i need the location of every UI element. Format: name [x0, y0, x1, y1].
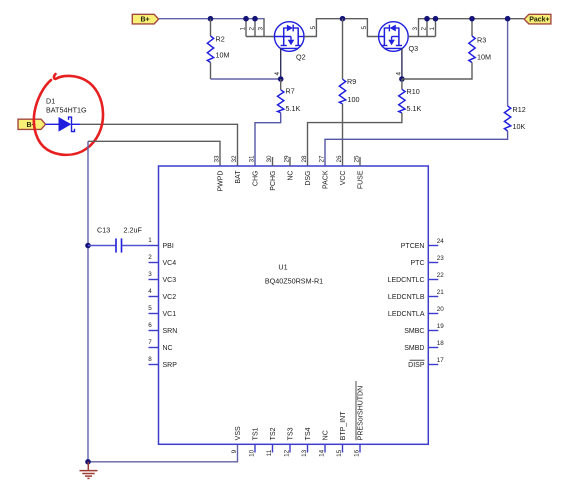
- svg-text:3: 3: [258, 27, 265, 31]
- svg-text:SRP: SRP: [163, 362, 178, 369]
- svg-text:26: 26: [336, 155, 343, 163]
- svg-text:VSS: VSS: [235, 426, 242, 440]
- diode D1 BAT54HT1G: [46, 97, 88, 132]
- ground: [80, 462, 98, 479]
- wire Q3 gate lead: [401, 48, 403, 79]
- svg-text:PCHG: PCHG: [270, 171, 277, 191]
- wire PWPD net (pin33 to left vertical): [88, 141, 220, 166]
- transistor Q3 (N-MOSFET mirrored): [379, 22, 418, 53]
- svg-text:R7: R7: [286, 87, 295, 96]
- svg-text:Pack+: Pack+: [529, 17, 549, 24]
- svg-text:100: 100: [348, 95, 360, 104]
- svg-text:FUSE: FUSE: [358, 170, 365, 189]
- svg-text:33: 33: [214, 155, 221, 163]
- svg-text:PTCEN: PTCEN: [401, 243, 425, 250]
- wire left vertical bus: [87, 141, 89, 462]
- svg-text:10M: 10M: [216, 51, 230, 60]
- svg-text:D1: D1: [46, 97, 55, 106]
- wire R2 bottom to Q2 gate: [211, 78, 281, 80]
- node junction C13: [85, 243, 91, 249]
- svg-text:5: 5: [361, 26, 368, 30]
- svg-text:VCC: VCC: [340, 171, 347, 186]
- U1 right pin stubs: [428, 246, 438, 365]
- svg-text:R3: R3: [477, 36, 486, 45]
- svg-text:22: 22: [437, 272, 445, 279]
- svg-text:TS3: TS3: [288, 427, 295, 440]
- svg-text:18: 18: [437, 340, 445, 347]
- svg-text:B+: B+: [141, 17, 150, 24]
- svg-text:12: 12: [284, 449, 291, 457]
- svg-text:TS1: TS1: [253, 427, 260, 440]
- svg-text:PWPD: PWPD: [218, 171, 225, 192]
- resistor R9: [339, 19, 359, 166]
- annotation red circle around D1: [34, 74, 103, 155]
- svg-text:2: 2: [148, 254, 152, 261]
- resistor R12: [325, 19, 526, 166]
- svg-text:BQ40Z50RSM-R1: BQ40Z50RSM-R1: [265, 277, 323, 286]
- svg-text:5.1K: 5.1K: [407, 104, 422, 113]
- svg-text:SRN: SRN: [163, 328, 178, 335]
- svg-text:TS2: TS2: [270, 427, 277, 440]
- svg-text:3: 3: [148, 271, 152, 278]
- svg-text:TS4: TS4: [305, 427, 312, 440]
- svg-text:VC4: VC4: [163, 260, 177, 267]
- svg-text:1: 1: [240, 27, 247, 31]
- svg-text:DISP: DISP: [408, 362, 425, 369]
- svg-text:PBI: PBI: [163, 243, 174, 250]
- op-amp U1 body: [159, 166, 429, 444]
- node junction ground: [85, 459, 91, 465]
- U1 top pin risers: [273, 157, 361, 166]
- resistor R3: [402, 19, 491, 79]
- svg-text:U1: U1: [278, 263, 287, 272]
- svg-text:17: 17: [437, 357, 445, 364]
- resistor R10: [308, 79, 422, 166]
- U1 left pin stubs: [149, 246, 159, 365]
- svg-text:32: 32: [231, 155, 238, 163]
- svg-text:NC: NC: [288, 171, 295, 181]
- node junction Q2 pin2: [252, 16, 258, 22]
- svg-text:PRESorSHUTDN: PRESorSHUTDN: [358, 386, 365, 440]
- svg-text:Q2: Q2: [296, 53, 306, 62]
- svg-text:VC3: VC3: [163, 277, 177, 284]
- svg-text:PACK: PACK: [323, 170, 330, 189]
- svg-text:28: 28: [301, 155, 308, 163]
- svg-text:R9: R9: [347, 77, 356, 86]
- wire VSS net to ground: [88, 444, 238, 462]
- svg-text:LEDCNTLB: LEDCNTLB: [388, 294, 425, 301]
- node junction Q2 gate: [278, 76, 284, 82]
- svg-text:R2: R2: [216, 35, 225, 44]
- svg-text:Q3: Q3: [409, 44, 419, 53]
- resistor R7: [255, 79, 300, 166]
- svg-text:11: 11: [266, 449, 273, 456]
- node junction Q3 gate: [399, 76, 405, 82]
- svg-text:24: 24: [437, 238, 445, 245]
- svg-text:NC: NC: [163, 345, 173, 352]
- svg-text:8: 8: [148, 356, 152, 363]
- node junction R12/rail: [505, 16, 511, 22]
- svg-text:7: 7: [148, 339, 152, 346]
- svg-text:R10: R10: [407, 87, 420, 96]
- svg-text:9: 9: [231, 449, 238, 453]
- svg-text:31: 31: [249, 155, 256, 163]
- svg-text:C13: C13: [97, 226, 110, 235]
- wire Q3 source stubs to Pack+ rail: [408, 19, 524, 37]
- svg-text:19: 19: [437, 323, 445, 330]
- power flag B+ (top): [132, 14, 158, 24]
- wire Q2 gate lead: [280, 48, 282, 79]
- node junction Q3 pin2: [424, 16, 430, 22]
- svg-text:SMBC: SMBC: [404, 328, 424, 335]
- svg-text:23: 23: [437, 255, 445, 262]
- node junction R2/rail: [208, 16, 214, 22]
- node junction mid rail: [340, 16, 346, 22]
- svg-text:DSG: DSG: [305, 171, 312, 186]
- svg-text:1: 1: [148, 237, 152, 244]
- svg-text:LEDCNTLA: LEDCNTLA: [388, 311, 425, 318]
- svg-text:10: 10: [249, 449, 256, 457]
- svg-text:30: 30: [266, 155, 273, 163]
- svg-text:21: 21: [437, 289, 445, 296]
- svg-text:5: 5: [148, 305, 152, 312]
- node junction Q2 pin1: [243, 16, 249, 22]
- capacitor C13: [88, 226, 149, 253]
- svg-text:BTP_INT: BTP_INT: [340, 411, 347, 441]
- wire D1 cathode to BAT pin: [80, 124, 238, 166]
- power flag Pack+: [524, 14, 551, 24]
- svg-text:2.2uF: 2.2uF: [124, 226, 143, 235]
- svg-text:NC: NC: [323, 430, 330, 440]
- wire Q2 drain to mid rail: [304, 19, 379, 37]
- wire top rail segment A (B+ to Q2 source stubs): [159, 18, 265, 20]
- svg-text:10K: 10K: [513, 122, 526, 131]
- svg-text:VC1: VC1: [163, 311, 177, 318]
- svg-text:16: 16: [354, 449, 361, 457]
- svg-text:R12: R12: [513, 105, 526, 114]
- transistor Q2 (N-MOSFET with body diode): [274, 22, 305, 62]
- resistor R2: [207, 19, 229, 79]
- svg-text:BAT: BAT: [235, 170, 242, 184]
- svg-text:13: 13: [301, 449, 308, 457]
- U1 bottom pin stubs: [255, 444, 360, 452]
- power flag B+ (left): [18, 119, 46, 129]
- svg-text:2: 2: [249, 27, 256, 31]
- svg-text:PTC: PTC: [411, 260, 425, 267]
- svg-text:6: 6: [148, 322, 152, 329]
- svg-text:LEDCNTLC: LEDCNTLC: [388, 277, 425, 284]
- svg-text:14: 14: [319, 449, 326, 457]
- svg-text:SMBD: SMBD: [404, 345, 424, 352]
- node junction R3/rail: [469, 16, 475, 22]
- node junction Q3 pin1: [433, 16, 439, 22]
- svg-text:25: 25: [354, 155, 361, 163]
- svg-text:29: 29: [284, 155, 291, 163]
- svg-text:27: 27: [319, 155, 326, 163]
- svg-text:15: 15: [336, 449, 343, 457]
- svg-text:4: 4: [148, 288, 152, 295]
- svg-text:CHG: CHG: [253, 171, 260, 187]
- svg-text:20: 20: [437, 306, 445, 313]
- svg-text:10M: 10M: [477, 53, 491, 62]
- svg-text:BAT54HT1G: BAT54HT1G: [46, 106, 87, 115]
- svg-text:5.1K: 5.1K: [286, 104, 301, 113]
- svg-text:VC2: VC2: [163, 294, 177, 301]
